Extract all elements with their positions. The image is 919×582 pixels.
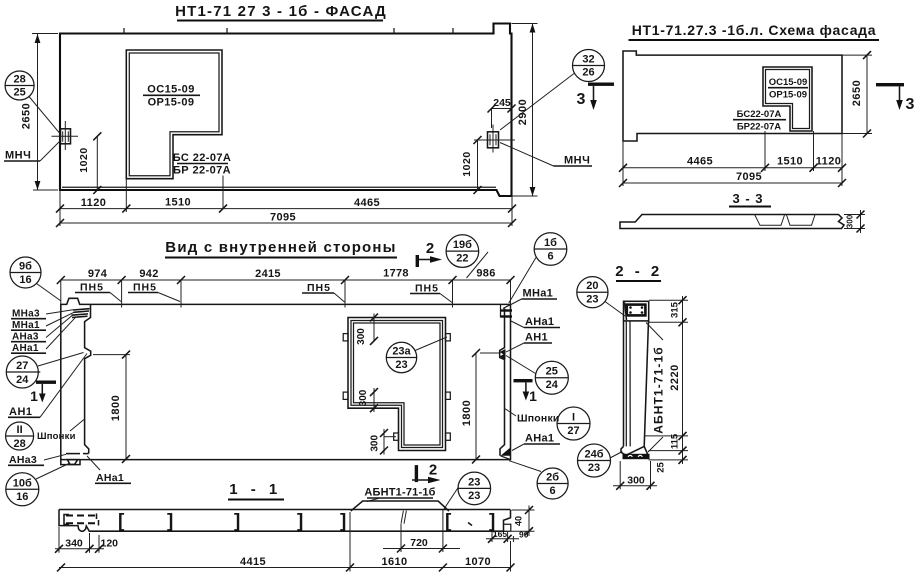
- svg-text:II: II: [17, 424, 23, 436]
- svg-text:245: 245: [493, 97, 511, 109]
- svg-text:340: 340: [65, 538, 83, 550]
- svg-text:1020: 1020: [78, 147, 90, 172]
- svg-text:6: 6: [547, 251, 553, 263]
- callout circle 20/23 with leader: [577, 277, 625, 316]
- callout circle 10б/16: [6, 463, 70, 506]
- svg-text:1020: 1020: [461, 151, 473, 176]
- svg-text:115: 115: [670, 433, 681, 449]
- inner panel right rib: [500, 309, 505, 456]
- callout circle 23а/23 with leader: [386, 337, 447, 373]
- svg-text:МНа1: МНа1: [12, 320, 40, 331]
- label АН1 (left): [8, 354, 87, 419]
- 1-1 rib brackets: [118, 511, 495, 532]
- svg-text:ОС15-09: ОС15-09: [769, 77, 808, 88]
- svg-text:27: 27: [16, 360, 28, 372]
- svg-text:19б: 19б: [453, 239, 472, 251]
- schema dimension 2650 (right): [842, 51, 872, 137]
- svg-text:МНЧ: МНЧ: [564, 155, 590, 167]
- svg-text:1510: 1510: [777, 156, 803, 168]
- svg-text:I: I: [572, 412, 575, 424]
- 1-1 left embedded channel (dashed): [64, 514, 99, 526]
- svg-text:]: ]: [234, 511, 240, 532]
- svg-text:23: 23: [395, 359, 407, 371]
- svg-text:4465: 4465: [354, 197, 380, 209]
- window dim 300 (top): [356, 314, 378, 345]
- label МНа1 (right top): [511, 288, 557, 305]
- 2-2 bottom foot: [621, 446, 650, 459]
- schema window labels: [733, 77, 808, 133]
- svg-text:28: 28: [13, 438, 25, 450]
- callout circle 27/24 with leaders: [6, 353, 83, 389]
- window dim 300 (middle): [358, 388, 378, 412]
- callout circle II/28 Шпонки (left): [6, 419, 85, 450]
- svg-text:1610: 1610: [381, 556, 407, 568]
- svg-text:1120: 1120: [81, 197, 106, 209]
- title Вид с внутренней стороны: [165, 239, 397, 258]
- svg-text:22: 22: [456, 253, 468, 265]
- svg-text:90: 90: [519, 530, 529, 540]
- svg-text:2650: 2650: [21, 103, 33, 129]
- title НТ1-71.27.3 -1б.л. Схема фасада: [629, 22, 880, 40]
- section mark 2 (top): [416, 240, 442, 267]
- section mark 1 (right): [514, 379, 538, 404]
- svg-text:]: ]: [167, 511, 173, 532]
- svg-text:МНЧ: МНЧ: [5, 150, 31, 162]
- svg-text:2: 2: [426, 240, 434, 257]
- callout circle 28/25: [5, 71, 59, 133]
- section 1-1 strip outline: [59, 510, 511, 532]
- svg-text:ПН5: ПН5: [307, 282, 331, 294]
- 1-1 dim 40 (right): [512, 506, 535, 537]
- svg-text:300: 300: [627, 475, 645, 487]
- svg-text:25: 25: [13, 87, 25, 99]
- svg-text:2650: 2650: [851, 80, 863, 106]
- section mark 3 (between facade and schema): [577, 83, 614, 111]
- svg-text:315: 315: [670, 301, 681, 318]
- facade total dimension 7095: [56, 212, 516, 228]
- svg-text:2220: 2220: [669, 364, 681, 390]
- 2-2 dim 300 (bottom): [613, 461, 657, 490]
- callout circle 23/23 with leader: [443, 472, 491, 510]
- svg-text:3: 3: [577, 91, 586, 108]
- inner panel left rib: [85, 305, 91, 454]
- svg-text:720: 720: [410, 537, 428, 549]
- 2-2 dim column 315 / 2220 / 115 / 25: [645, 296, 688, 473]
- label Шпонки with callout circle I/27 (right): [504, 407, 590, 440]
- svg-text:ПН5: ПН5: [133, 282, 157, 294]
- svg-text:3 - 3: 3 - 3: [732, 191, 763, 206]
- svg-text:300: 300: [358, 389, 369, 406]
- svg-text:16: 16: [16, 491, 28, 503]
- svg-text:3: 3: [906, 96, 915, 113]
- svg-text:24: 24: [546, 379, 559, 391]
- label АНа1 (right, upper): [511, 316, 560, 328]
- svg-text:БС 22-07А: БС 22-07А: [173, 152, 231, 164]
- svg-text:974: 974: [88, 268, 108, 280]
- label АНа1 (right, lower): [512, 433, 560, 451]
- svg-text:2415: 2415: [255, 268, 281, 280]
- 1-1 main dim 4415 / 1610 / 1070: [57, 512, 515, 572]
- svg-text:АБНТ1-71-1б: АБНТ1-71-1б: [364, 487, 435, 499]
- svg-text:300: 300: [846, 214, 855, 228]
- label АН1 (right): [506, 332, 552, 353]
- svg-text:23а: 23а: [392, 346, 411, 358]
- svg-text:4415: 4415: [240, 556, 266, 568]
- svg-text:25: 25: [546, 366, 558, 378]
- label АБНТ1-71-1б (bottom): [364, 487, 435, 502]
- label АНа1 (bottom left): [87, 456, 131, 484]
- svg-text:1 - 1: 1 - 1: [229, 481, 282, 498]
- schema total dimension 7095: [619, 171, 846, 187]
- svg-text:27: 27: [567, 425, 579, 437]
- svg-text:24б: 24б: [584, 449, 603, 461]
- callout circle 19б/22 with leader: [446, 235, 488, 278]
- window label БС 22-07А / БР 22-07А: [173, 152, 231, 177]
- top dimension line 974/942/2415/1778/986: [57, 268, 515, 308]
- svg-text:1: 1: [529, 388, 537, 404]
- svg-text:АБНТ1-71-1б: АБНТ1-71-1б: [652, 346, 666, 434]
- svg-text:4465: 4465: [687, 156, 713, 168]
- svg-text:1070: 1070: [465, 556, 491, 568]
- svg-text:МНа1: МНа1: [523, 288, 554, 300]
- window fixing tabs: [343, 334, 450, 441]
- svg-text:]: ]: [340, 511, 346, 532]
- leader from БР label down to dim line: [222, 176, 224, 209]
- anchor МНЧ box on left edge: [52, 121, 79, 150]
- callout circle 9б/16: [10, 257, 61, 301]
- callout circle 2б/6 with leader: [509, 461, 568, 499]
- svg-text:2: 2: [429, 462, 437, 479]
- svg-text:2б: 2б: [546, 472, 559, 484]
- dimension 1020 (facade right): [461, 136, 482, 194]
- svg-text:ОР15-09: ОР15-09: [148, 97, 195, 109]
- section 3-3 profile: [620, 215, 844, 229]
- callout circle 1б/6 with leader: [509, 233, 567, 303]
- svg-text:АНа3: АНа3: [9, 454, 37, 466]
- svg-text:16: 16: [19, 274, 31, 286]
- svg-text:942: 942: [139, 268, 158, 280]
- facade bottom dimension line 1120 / 1510 / 4465: [56, 179, 516, 226]
- svg-text:32: 32: [582, 54, 594, 66]
- right bottom corner wedge АНа1: [501, 448, 511, 460]
- facade panel outline: [60, 24, 512, 197]
- svg-text:1120: 1120: [816, 156, 841, 168]
- dimension 2900 (facade far right): [512, 24, 538, 197]
- svg-text:2 - 2: 2 - 2: [615, 263, 663, 280]
- callout circle 25/24 with leader: [506, 356, 568, 395]
- label АНа3 (left bottom): [8, 454, 66, 466]
- svg-text:АНа1: АНа1: [96, 472, 124, 484]
- callout circle 32/26 with leader: [500, 50, 605, 131]
- svg-text:1800: 1800: [461, 400, 473, 426]
- svg-text:120: 120: [101, 538, 119, 550]
- svg-text:165: 165: [493, 529, 507, 539]
- section mark 2 (bottom): [412, 462, 441, 484]
- svg-text:26: 26: [582, 67, 594, 79]
- dimension 1800 (right): [461, 349, 499, 464]
- svg-text:НТ1-71 27 3 - 1б - ФАСАД: НТ1-71 27 3 - 1б - ФАСАД: [175, 3, 387, 20]
- svg-text:АНа1: АНа1: [525, 316, 554, 328]
- 1-1 dims 340 / 120: [55, 527, 118, 553]
- dimension 1020 (facade left): [78, 132, 101, 194]
- inner window opening (L-shape, triple line): [348, 318, 446, 451]
- svg-text:МНа3: МНа3: [12, 309, 40, 320]
- svg-text:]: ]: [297, 511, 303, 532]
- svg-text:1б: 1б: [544, 237, 557, 249]
- svg-text:23: 23: [468, 476, 480, 488]
- svg-text:Шпонки: Шпонки: [37, 431, 76, 442]
- svg-text:ОР15-09: ОР15-09: [769, 90, 807, 101]
- svg-text:9б: 9б: [19, 261, 32, 273]
- window dim 300 (bottom): [370, 429, 397, 455]
- svg-text:24: 24: [16, 374, 29, 386]
- labels МНа3 МНа1 АНа3 АНа1 (left): [11, 309, 76, 355]
- svg-text:АН1: АН1: [525, 332, 548, 344]
- svg-text:АНа1: АНа1: [525, 433, 554, 445]
- svg-text:ПН5: ПН5: [80, 282, 104, 294]
- svg-text:986: 986: [476, 268, 495, 280]
- svg-text:7095: 7095: [270, 212, 296, 224]
- left bottom anchor dashes: [66, 453, 89, 455]
- left anchor plate dashes (МНа/АНа): [72, 309, 90, 318]
- 1-1 dim 720: [383, 524, 460, 553]
- window label ОС15-09 / ОР15-09: [143, 84, 200, 109]
- svg-text:7095: 7095: [736, 171, 762, 183]
- 1-1 window sill trapezoid hat: [351, 501, 449, 531]
- svg-text:Шпонки: Шпонки: [517, 413, 560, 425]
- dimension 2650 (facade left): [21, 34, 59, 191]
- facade window opening (L-shape, double line): [126, 50, 222, 179]
- svg-text:БР 22-07А: БР 22-07А: [173, 165, 231, 177]
- title 2 - 2: [615, 263, 663, 281]
- svg-text:23: 23: [468, 490, 480, 502]
- svg-text:1778: 1778: [383, 268, 409, 280]
- anchor box right (facade): [474, 125, 515, 153]
- svg-text:Вид с внутренней стороны: Вид с внутренней стороны: [165, 239, 396, 256]
- title 1 - 1: [228, 481, 284, 500]
- svg-text:40: 40: [514, 516, 524, 526]
- right mid hook АН1: [500, 349, 506, 359]
- callout circle 24б/23 with leader: [578, 444, 623, 477]
- svg-text:[: [: [445, 511, 452, 532]
- svg-text:АНа1: АНа1: [12, 343, 39, 354]
- svg-text:28: 28: [13, 74, 25, 86]
- label МНЧ (left): [4, 141, 60, 162]
- svg-text:6: 6: [550, 485, 556, 497]
- svg-text:1800: 1800: [110, 395, 122, 421]
- right top corner anchor МНа1: [501, 305, 513, 318]
- svg-text:25: 25: [656, 462, 667, 473]
- section mark 3 (schema right): [876, 83, 915, 113]
- schema dimension line 4465 / 1510 / 1120: [619, 131, 846, 186]
- svg-text:НТ1-71.27.3 -1б.л. Схема фаса: НТ1-71.27.3 -1б.л. Схема фасада: [632, 22, 877, 38]
- 1-1 dims 165 / 90: [486, 529, 529, 543]
- 2-2 top block (window head): [624, 301, 649, 321]
- facade top edge ticks: [124, 28, 453, 34]
- label МНЧ (right) with leader: [500, 143, 592, 167]
- svg-text:АН1: АН1: [9, 406, 33, 418]
- 2-2 vertical strip: [624, 321, 649, 447]
- svg-text:БР22-07А: БР22-07А: [737, 122, 781, 133]
- svg-text:300: 300: [356, 328, 367, 345]
- svg-text:23: 23: [586, 294, 598, 306]
- inner panel outline: [61, 298, 511, 464]
- left bottom trapezoid plate: [67, 460, 77, 465]
- svg-text:[: [: [118, 511, 125, 532]
- svg-text:1: 1: [30, 388, 38, 404]
- title НТ1-71 27 3 - 1б - ФАСАД: [175, 3, 387, 21]
- svg-text:10б: 10б: [13, 477, 32, 489]
- svg-text:20: 20: [586, 280, 598, 292]
- svg-text:АНа3: АНа3: [12, 332, 39, 343]
- dimension 300 (3-3 right): [844, 210, 865, 233]
- section mark 1 (left): [30, 381, 56, 405]
- svg-text:300: 300: [370, 435, 381, 452]
- 2-2 label АБНТ1-71-1б (rotated): [646, 323, 666, 453]
- svg-text:ПН5: ПН5: [415, 283, 439, 295]
- schema panel outline: [623, 51, 842, 141]
- ПН5 labels with leaders: [75, 282, 452, 303]
- svg-text:1510: 1510: [165, 197, 191, 209]
- svg-text:БС22-07А: БС22-07А: [737, 109, 782, 120]
- title 3-3: [729, 191, 771, 207]
- dimension 1800 (left): [93, 351, 130, 463]
- svg-text:23: 23: [588, 462, 600, 474]
- dimension 245 (facade right top): [488, 97, 516, 128]
- schema window opening (double line): [763, 67, 812, 131]
- 1-1 small rebar mark: [468, 523, 472, 526]
- svg-text:ОС15-09: ОС15-09: [147, 84, 194, 96]
